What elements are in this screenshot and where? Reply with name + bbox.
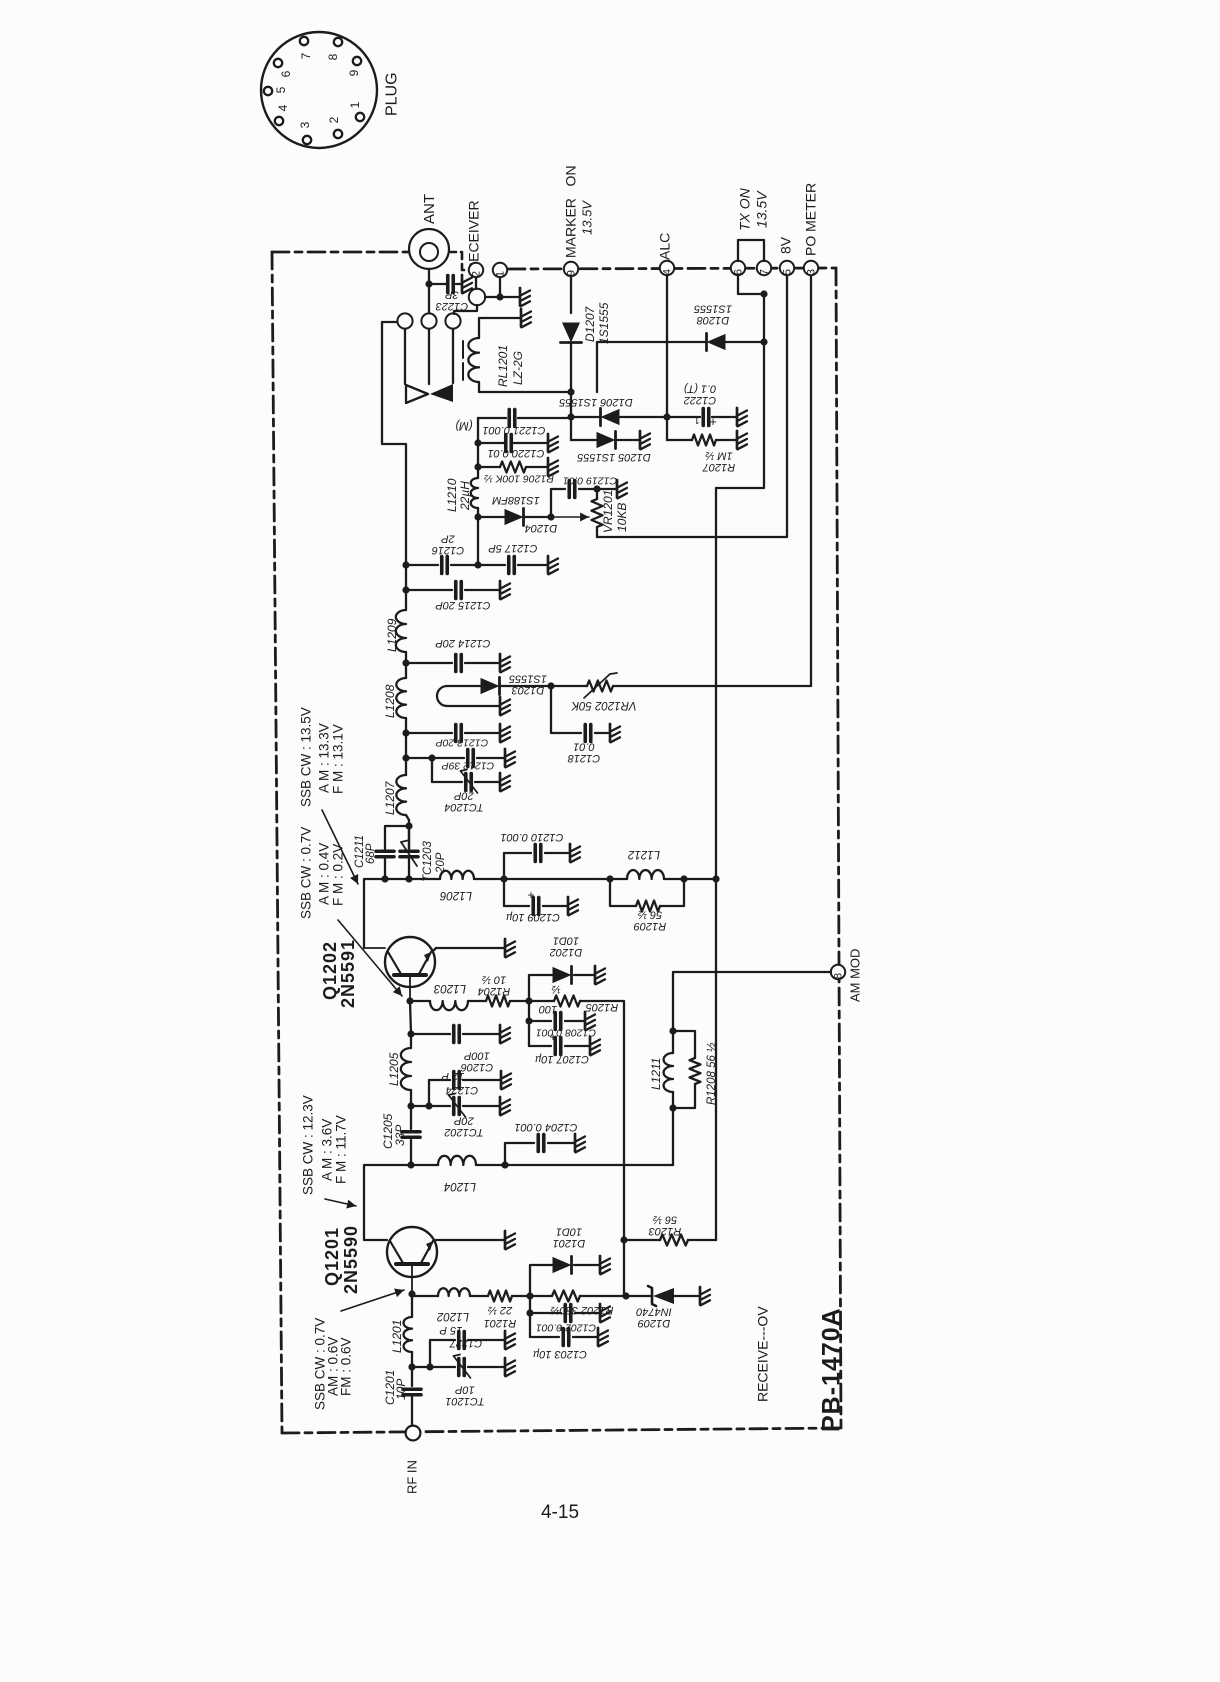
ground (C1220) [548, 434, 558, 452]
label 8V [778, 236, 794, 254]
svg-text:7: 7 [299, 52, 313, 59]
svg-text:8: 8 [833, 973, 845, 979]
capacitor C1203 10u [557, 1321, 568, 1346]
wiper arrow VR1201 [555, 512, 589, 521]
label L1201 [390, 1320, 404, 1353]
label C1213 20P [436, 736, 489, 748]
svg-text:1S1555: 1S1555 [597, 302, 611, 344]
label TC1202 20P [444, 1114, 483, 1138]
label R1202 330 [551, 1304, 614, 1316]
capacitor C1216 [406, 557, 478, 574]
relay contact a [397, 313, 412, 328]
svg-text:20P: 20P [454, 789, 475, 801]
diode D1201 10D1 [553, 1256, 572, 1273]
ground (C1207) [590, 1037, 600, 1055]
svg-text:4: 4 [662, 269, 674, 275]
label C1220 0.01 [488, 447, 545, 459]
board outline (dashed) right side [836, 268, 841, 1428]
label L1209 [385, 618, 399, 652]
board outline (dashed) bottom [282, 1428, 841, 1433]
label D1209 IN4740 [635, 1305, 671, 1329]
svg-text:2N5590: 2N5590 [341, 1225, 361, 1294]
label L1208 [383, 684, 397, 718]
svg-text:C1221 0.001: C1221 0.001 [483, 424, 546, 436]
svg-text:RECEIVE---OV: RECEIVE---OV [755, 1306, 771, 1402]
capacitor C1205 33P [402, 1106, 420, 1169]
label L1212 [627, 848, 660, 860]
inductor L1205 [401, 1034, 415, 1110]
svg-text:10P: 10P [455, 1383, 475, 1395]
svg-text:TC1203: TC1203 [422, 840, 434, 882]
svg-text:L1210: L1210 [445, 478, 459, 512]
board outline (dashed) top-right segment [508, 268, 836, 269]
label (M) [455, 419, 472, 431]
svg-text:D1206 1S1555: D1206 1S1555 [558, 396, 632, 408]
svg-text:IN4740: IN4740 [635, 1305, 671, 1317]
relay moving contact (to pin2) [469, 289, 485, 305]
svg-text:L1209: L1209 [385, 618, 399, 652]
diode D1208 1S1555 [707, 333, 726, 350]
svg-text:TC1202: TC1202 [444, 1126, 483, 1138]
resistor R1209 56 [610, 879, 684, 912]
wire C1202 branch [526, 1296, 599, 1337]
label L1206 [439, 889, 472, 901]
resistor R1202 330 [530, 1291, 630, 1302]
wire C1203 branch [530, 1336, 597, 1338]
inductor L1204 [411, 1156, 673, 1169]
connector ANT [409, 229, 449, 269]
capacitor C1211 68P [376, 851, 394, 857]
ground (C1212) [505, 749, 515, 767]
resistor R1207 1M [667, 435, 736, 446]
ground (C1218) [610, 724, 620, 742]
svg-text:56 ½: 56 ½ [638, 908, 662, 920]
label 68P (C1211) [365, 843, 377, 864]
label ANT [421, 194, 438, 224]
svg-text:F M : 13.1V: F M : 13.1V [330, 724, 345, 794]
svg-text:C1222: C1222 [684, 394, 716, 406]
label C1201 [383, 1370, 397, 1405]
svg-text:R1204: R1204 [478, 985, 510, 997]
svg-text:15 P: 15 P [439, 1324, 462, 1336]
svg-text:C1204 0.001: C1204 0.001 [515, 1121, 578, 1133]
svg-text:2: 2 [327, 116, 341, 123]
wire C1204 branch [505, 1143, 574, 1165]
inductor L1206 [440, 871, 598, 883]
wire contact-a stem [404, 329, 406, 384]
label VR1201 [601, 490, 615, 533]
svg-text:F M : 0.2V: F M : 0.2V [330, 844, 345, 906]
label C1219 0.01 [563, 474, 617, 486]
board outline (dashed) left side [272, 252, 282, 1433]
label C1227 15P [439, 1324, 482, 1349]
trimmer TC1201 [430, 1355, 504, 1379]
board outline (dashed) top-left segment [272, 251, 410, 254]
svg-text:+: + [557, 1321, 564, 1335]
capacitor C1215 [406, 582, 499, 599]
potentiometer VR1201 10KB [592, 489, 603, 537]
terminal pin 2 [469, 263, 483, 277]
wire pin1 stem [496, 277, 503, 301]
svg-text:R1203: R1203 [648, 1225, 681, 1237]
wire tx bracket top [738, 240, 764, 261]
terminal pin 6 [731, 261, 745, 275]
terminal pin 7 [757, 261, 771, 275]
svg-text:RF IN: RF IN [404, 1460, 419, 1494]
wire C1208 branch [525, 1001, 584, 1046]
diode D1203 1S1555 [481, 677, 555, 694]
svg-text:4-15: 4-15 [541, 1502, 579, 1523]
wire D1202 branch [529, 975, 594, 1001]
svg-text:TC1201: TC1201 [445, 1395, 484, 1407]
label R1208 56 [706, 1042, 718, 1105]
label C1207 10u [535, 1053, 589, 1065]
label 20P (TC1203) [435, 852, 447, 874]
svg-text:9: 9 [347, 69, 361, 76]
resistor R1205 100 [529, 996, 628, 1297]
ground (C1215) [500, 581, 510, 599]
svg-text:F M : 11.7V: F M : 11.7V [333, 1115, 348, 1184]
svg-text:6: 6 [279, 70, 293, 77]
svg-text:C1202 0.001: C1202 0.001 [536, 1321, 596, 1333]
inductor L1209 [396, 610, 410, 678]
ground (C1213) [500, 724, 510, 742]
svg-text:L1203: L1203 [433, 982, 466, 994]
ground (C1222) [737, 408, 747, 426]
capacitor C1217 [478, 557, 547, 574]
terminal pin 4 [660, 261, 674, 275]
label R1206 100K [484, 472, 554, 484]
svg-text:VR1202 50K: VR1202 50K [570, 699, 637, 711]
label C1204 0.001 [515, 1121, 578, 1133]
svg-text:SSB CW : 13.5V: SSB CW : 13.5V [298, 707, 313, 807]
svg-text:0.01: 0.01 [573, 740, 594, 752]
svg-text:6: 6 [733, 269, 745, 275]
wire pin9 stem [570, 276, 572, 313]
wire tx feed down [712, 294, 764, 1240]
wire relay contact to pin1/ground [485, 296, 519, 298]
label R1203 56 [648, 1213, 681, 1237]
label C1205 [381, 1113, 395, 1149]
svg-text:MARKER ON: MARKER ON [563, 165, 579, 258]
capacitor C1219 [569, 481, 575, 498]
label ALC [657, 233, 673, 260]
svg-text:13.5V: 13.5V [754, 190, 770, 228]
svg-text:SSB CW : 0.7V: SSB CW : 0.7V [298, 827, 313, 919]
transistor Q1202 2N5591 [364, 937, 435, 1001]
svg-text:68P: 68P [365, 843, 377, 864]
ground (C1227) [505, 1331, 515, 1349]
svg-text:22µH: 22µH [458, 481, 472, 511]
label 100 (R1205) [538, 1003, 557, 1015]
svg-text:2P: 2P [441, 532, 456, 544]
wire D1208 branch [597, 338, 768, 392]
wire tank vertical upper [402, 561, 409, 610]
label L1210 [445, 478, 459, 512]
diode D1206 1S1555 [601, 408, 620, 425]
svg-text:33P: 33P [393, 1125, 407, 1146]
label L1204 [444, 1180, 476, 1192]
label R1201 [484, 1317, 516, 1329]
capacitor C1224 [425, 1072, 500, 1110]
wire relay coil top [479, 318, 520, 338]
label Q1202 [320, 941, 340, 1000]
label 1S188FM [491, 494, 540, 506]
capacitor C1214 [406, 655, 499, 672]
label 22 half [488, 1304, 513, 1316]
label half (R1205) [551, 983, 560, 995]
label RL1201 [496, 345, 510, 387]
label PB-1470A [817, 1307, 845, 1432]
wire C1218 branch [551, 686, 609, 733]
wire Q1202 base row [406, 997, 430, 1004]
svg-text:ALC: ALC [657, 233, 673, 260]
wire contact-b stem [428, 329, 430, 384]
capacitor C1201 10P [403, 1389, 421, 1426]
svg-text:1: 1 [694, 414, 700, 425]
label L1211 [649, 1058, 663, 1090]
terminal RF IN [406, 1426, 421, 1441]
svg-text:D1201: D1201 [553, 1237, 585, 1249]
svg-text:C1203 10µ: C1203 10µ [533, 1348, 587, 1360]
diode D1202 10D1 [553, 966, 572, 983]
label C1215 20P [435, 599, 491, 611]
svg-text:1: 1 [348, 101, 362, 108]
svg-text:+: + [527, 888, 534, 902]
capacitor C1204 [538, 1135, 544, 1152]
label C1202 0.001 [536, 1321, 596, 1333]
wire C1210 branch [504, 853, 569, 879]
label C1216 2P [431, 532, 464, 556]
label C1223 3P [435, 288, 468, 312]
inductor L1203 [430, 1001, 486, 1010]
capacitor C1222 0.1(T) [694, 409, 717, 430]
note collector voltages Q1201 [300, 1095, 348, 1195]
svg-text:C1214 20P: C1214 20P [435, 637, 491, 649]
wire D1201 branch [530, 1265, 599, 1296]
svg-text:ANT: ANT [421, 194, 438, 224]
label 2N5591 [338, 939, 358, 1008]
label D1206 1S1555 [558, 396, 632, 408]
inductor L1212 [598, 870, 716, 883]
capacitor C1206 [411, 1026, 499, 1043]
ground (R1206) [548, 458, 558, 476]
svg-text:13.5V: 13.5V [579, 200, 594, 235]
board outline (dashed) jog at receiver [448, 252, 469, 270]
ground (D1209) [700, 1287, 710, 1305]
wire C1209 branch [504, 879, 567, 906]
capacitor C1220 [478, 435, 547, 452]
svg-text:C1218: C1218 [567, 752, 600, 764]
ground (C1224) [501, 1071, 511, 1089]
label 22uH [458, 481, 472, 511]
label C1222 0.1(T) [683, 382, 716, 406]
wire pin2 to relay contact [475, 277, 477, 289]
svg-text:RL1201: RL1201 [496, 345, 510, 387]
label TX ON [737, 187, 753, 231]
label 1S1555 (D1207) [597, 302, 611, 344]
label RECEIVER [466, 200, 482, 272]
svg-text:C1217 5P: C1217 5P [488, 542, 538, 554]
page number 4-15 [541, 1502, 579, 1523]
ground (D1201) [600, 1256, 610, 1274]
trimmer TC1204 [432, 758, 499, 793]
label C1218 0.01 [567, 740, 600, 764]
svg-text:C1215 20P: C1215 20P [435, 599, 491, 611]
svg-text:½: ½ [551, 983, 560, 995]
svg-text:(M): (M) [455, 419, 472, 431]
wire collector rail Q1202 [364, 875, 440, 948]
label C1217 5P [488, 542, 538, 554]
svg-text:L1202: L1202 [436, 1310, 469, 1322]
inductor L1201 [404, 1296, 416, 1386]
label 33P (C1205) [393, 1125, 407, 1146]
label C1208 0.001 [536, 1026, 596, 1038]
wire ANT stem [425, 269, 432, 313]
svg-text:R1208 56 ½: R1208 56 ½ [706, 1042, 718, 1105]
terminal pin 1 [493, 263, 507, 277]
wire D1203 hairpin [437, 686, 499, 706]
label 10P (C1201) [394, 1379, 408, 1400]
svg-text:L1208: L1208 [383, 684, 397, 718]
ground (TC1202) [500, 1097, 510, 1115]
annotation arrow (13.5V) [322, 810, 358, 884]
annotation arrow (Q1202 base) [338, 920, 402, 996]
svg-text:L1205: L1205 [387, 1052, 401, 1086]
ground (Q1202 emitter) [505, 939, 515, 957]
svg-text:R1201: R1201 [484, 1317, 516, 1329]
ground (C1209) [568, 897, 578, 915]
label C1214 20P [435, 637, 491, 649]
label D1204 [525, 522, 557, 534]
svg-text:C1207 10µ: C1207 10µ [535, 1053, 589, 1065]
svg-text:D1204: D1204 [525, 522, 557, 534]
label C1211 [354, 835, 366, 868]
ground (C1208) [585, 1012, 595, 1030]
svg-text:R1209: R1209 [634, 920, 666, 932]
label C1212 39P [442, 759, 495, 771]
wire C1207 branch [529, 1045, 589, 1047]
label Q1201 [322, 1227, 342, 1286]
label L1205 [387, 1052, 401, 1086]
ground (C1219) [617, 480, 627, 498]
ground (receiver side) [520, 288, 530, 306]
ground (TC1204) [500, 773, 510, 791]
wire contact-a left drop [382, 322, 406, 565]
label VR1202 50K [570, 699, 637, 711]
svg-text:1S1555: 1S1555 [508, 672, 547, 684]
svg-text:SSB CW : 12.3V: SSB CW : 12.3V [300, 1095, 315, 1195]
label 13.5V (marker) [579, 200, 594, 235]
note collector voltages Q1202 [298, 707, 345, 807]
svg-text:Q1202: Q1202 [320, 941, 340, 1000]
annotation arrow (12.3V) [325, 1199, 356, 1208]
svg-text:VR1201: VR1201 [601, 490, 615, 533]
trimmer TC1203 20P [400, 826, 418, 879]
connector plug PLUG (9-pin, rear view) [261, 32, 377, 148]
relay contact c [445, 313, 460, 328]
label D1205 1S1555 [576, 451, 650, 463]
svg-text:C1209 10µ: C1209 10µ [506, 911, 560, 923]
svg-text:C1210 0.001: C1210 0.001 [501, 831, 564, 843]
resistor R1201 22 [488, 1291, 534, 1302]
capacitor C1213 [406, 725, 499, 742]
inductor L1208 [396, 678, 409, 775]
label D1202 10D1 [550, 934, 582, 958]
svg-text:PLUG: PLUG [383, 72, 400, 116]
label 10KB [615, 503, 629, 532]
ground (R1207) [737, 431, 747, 449]
wire tx bracket bottom [738, 276, 768, 298]
label L1203 [433, 982, 466, 994]
svg-text:5: 5 [782, 269, 794, 275]
capacitor C1223 [429, 276, 461, 293]
label D1201 10D1 [553, 1225, 585, 1249]
relay armature (spark gap symbol) [406, 384, 453, 403]
diode D1205 1S1555 [571, 431, 639, 448]
relay coil RL1201 [463, 338, 479, 382]
variable resistor VR1202 50K [551, 673, 617, 698]
ground (C1214) [500, 654, 510, 672]
diode D1204 1S188FM [478, 508, 555, 525]
svg-text:20P: 20P [454, 1114, 475, 1126]
capacitor C1218 [585, 725, 591, 742]
svg-text:D1202: D1202 [550, 946, 582, 958]
inductor L1211 [664, 1053, 673, 1092]
ground (C1204) [575, 1134, 585, 1152]
svg-text:3P: 3P [445, 288, 459, 300]
capacitor C1227 [412, 1332, 504, 1371]
label RF IN [404, 1460, 419, 1494]
label 2N5590 [341, 1225, 361, 1294]
svg-text:C1213 20P: C1213 20P [436, 736, 489, 748]
label TC1203 [422, 840, 434, 882]
ground (Q1201 emitter) [505, 1231, 515, 1249]
svg-text:RECEIVER: RECEIVER [466, 200, 482, 272]
svg-text:PO METER: PO METER [803, 183, 819, 256]
label R1209 56 [634, 908, 666, 932]
label D1208 1S1555 [693, 302, 732, 326]
svg-text:8V: 8V [778, 236, 794, 254]
svg-text:4: 4 [276, 104, 290, 111]
svg-text:R1206 100K ½: R1206 100K ½ [484, 472, 554, 484]
ground (C1217) [548, 556, 558, 574]
note base voltages Q1201 [312, 1318, 353, 1410]
svg-text:LZ-2G: LZ-2G [511, 351, 525, 385]
svg-text:56 ½: 56 ½ [653, 1213, 677, 1225]
ground (C1203) [598, 1328, 608, 1346]
capacitor C1209 10u [527, 888, 538, 915]
terminal pin 5 [780, 261, 794, 275]
label C1209 10u [506, 911, 560, 923]
svg-text:L1211: L1211 [649, 1058, 663, 1090]
ground (relay coil top) [521, 309, 531, 327]
svg-text:10P: 10P [394, 1379, 408, 1400]
ground (D1205) [640, 431, 650, 449]
svg-text:3: 3 [806, 269, 818, 275]
ground (D1203 hairpin) [500, 697, 510, 715]
wire pin3 PO line [613, 276, 811, 686]
wire relay coil bottom [479, 382, 571, 392]
label TC1204 20P [444, 789, 483, 813]
terminal pin 9 [564, 262, 578, 276]
wire L1210 rail [471, 418, 482, 569]
terminal pin 8 AM MOD [831, 965, 845, 979]
svg-text:TX ON: TX ON [737, 187, 753, 231]
wire D1206 row [571, 416, 667, 418]
wire collector rail Q1201 [364, 1165, 411, 1240]
label C1224 [446, 1084, 478, 1096]
